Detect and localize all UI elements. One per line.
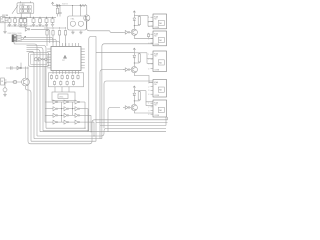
svg-text:RLY: RLY bbox=[154, 56, 158, 58]
capacitor C6 bbox=[38, 17, 41, 26]
resistor R UC bbox=[138, 91, 140, 101]
capacitor C3 bbox=[19, 17, 22, 26]
wire nest bus1 bbox=[27, 46, 47, 129]
wire feed U_B bbox=[100, 70, 125, 139]
wire gate out3 bbox=[90, 115, 91, 132]
op-amp U4D gate row bbox=[45, 120, 94, 124]
wire bus row E bbox=[40, 131, 166, 133]
svg-text:NO: NO bbox=[159, 40, 162, 42]
wire mid signal bbox=[6, 67, 29, 68]
buffer UA bbox=[123, 31, 131, 35]
power VCC UA bbox=[133, 11, 135, 14]
transistor Q UC bbox=[131, 104, 137, 110]
wire UC out1 bbox=[139, 91, 153, 106]
wire bus row C bbox=[34, 138, 102, 140]
wire bus top1 bbox=[96, 122, 168, 124]
power VCC arrow bbox=[51, 2, 53, 5]
svg-text:3: 3 bbox=[148, 26, 149, 28]
wire bus row D bbox=[37, 128, 166, 136]
wire nest bus3 bbox=[27, 50, 41, 132]
svg-text:2: 2 bbox=[148, 86, 149, 88]
label PWR text bbox=[2, 15, 9, 17]
wire bus top2 bbox=[100, 125, 166, 127]
wire gate feeds left bbox=[44, 66, 46, 122]
op-amp U4B gate row bbox=[45, 107, 88, 111]
diode D UC bbox=[133, 91, 136, 101]
ground resonator A bbox=[71, 31, 75, 34]
svg-text:K1 RLY: K1 RLY bbox=[20, 4, 25, 6]
wire bus row A bbox=[28, 67, 168, 144]
connector P5 bbox=[148, 100, 166, 117]
wire gate link2 bbox=[72, 102, 73, 115]
op-amp U5 dual gate bbox=[29, 53, 49, 67]
svg-text:1: 1 bbox=[148, 103, 149, 105]
wire UB out1 bbox=[139, 53, 153, 64]
wire bus row G bbox=[46, 127, 85, 129]
resistor R5 bbox=[58, 30, 60, 44]
wire relay to rail bbox=[21, 13, 30, 17]
wire gate out4 bbox=[93, 122, 94, 136]
op-amp U1 MCU bbox=[47, 43, 85, 74]
wire vert v2 bbox=[95, 36, 97, 141]
resistor R UB bbox=[138, 53, 140, 63]
wire UC emitter bbox=[134, 111, 153, 113]
svg-text:CONN: CONN bbox=[154, 27, 160, 29]
ground lower left bbox=[3, 92, 7, 97]
wire nest bus2 bbox=[27, 48, 44, 131]
connector J3 bbox=[1, 78, 7, 85]
svg-text:4: 4 bbox=[148, 94, 149, 96]
wire RN1 to U3 bbox=[55, 87, 69, 92]
svg-text:RLY: RLY bbox=[154, 19, 158, 21]
wire UA mid bbox=[134, 25, 140, 29]
resistor R7 bbox=[56, 6, 58, 17]
connector P4 bbox=[148, 80, 166, 98]
svg-text:2: 2 bbox=[148, 107, 149, 109]
svg-text:1: 1 bbox=[148, 34, 149, 36]
svg-text:XTAL: XTAL bbox=[71, 17, 75, 20]
wire Q2 emitter bbox=[20, 63, 22, 68]
resistor R UA2 bbox=[147, 33, 149, 38]
node box group bbox=[19, 18, 27, 27]
wire UA out1 bbox=[139, 16, 153, 27]
connector J1 bbox=[1, 17, 8, 23]
svg-text:RLY: RLY bbox=[154, 84, 158, 86]
wire gate link1 bbox=[61, 102, 62, 122]
buffer UB bbox=[123, 68, 131, 72]
wire rail2 bbox=[7, 25, 48, 26]
svg-text:3: 3 bbox=[148, 43, 149, 45]
label VDD text bbox=[62, 3, 69, 5]
svg-text:OSC: OSC bbox=[59, 97, 64, 99]
arrow relay pointer bbox=[12, 5, 18, 14]
wire icsp pgm3 bbox=[21, 42, 59, 44]
wire UB emitter bbox=[134, 73, 153, 83]
transistor Q4 bbox=[3, 82, 7, 92]
wire icsp pgm2 bbox=[21, 39, 56, 43]
wire feed box2 bbox=[102, 44, 153, 139]
svg-text:3: 3 bbox=[148, 110, 149, 112]
wire gate out2 bbox=[87, 109, 88, 132]
capacitor C8 bbox=[51, 17, 54, 26]
svg-text:1: 1 bbox=[148, 83, 149, 85]
wire VCC rail bbox=[2, 17, 56, 18]
svg-text:VDD 5V: VDD 5V bbox=[62, 3, 69, 5]
wire bus row B bbox=[31, 140, 96, 142]
svg-text:4: 4 bbox=[148, 114, 149, 116]
buffer U6A bbox=[17, 66, 22, 70]
capacitor C1 bbox=[8, 17, 11, 26]
svg-text:1: 1 bbox=[148, 54, 149, 56]
capacitor C5 bbox=[32, 17, 35, 26]
connector J2 ICSP bbox=[12, 35, 21, 42]
wire bus hooks bbox=[166, 117, 168, 126]
power VCC UC bbox=[133, 86, 135, 89]
wire top rail bbox=[53, 5, 87, 6]
buffer UC bbox=[123, 106, 131, 110]
ground resonator B bbox=[79, 31, 83, 34]
capacitor C2 bbox=[13, 17, 16, 26]
wire Q1 out bbox=[87, 21, 123, 32]
svg-text:RLY: RLY bbox=[154, 105, 158, 107]
diode D1 bbox=[57, 4, 60, 7]
svg-text:2: 2 bbox=[148, 38, 149, 40]
transistor Q1 bbox=[84, 6, 90, 22]
wire relay top loop bbox=[21, 1, 31, 3]
svg-text:PIC: PIC bbox=[62, 60, 66, 62]
wire Q3 stub bbox=[26, 86, 32, 141]
svg-text:NO: NO bbox=[159, 110, 162, 112]
svg-text:3: 3 bbox=[148, 90, 149, 92]
resistor R4 bbox=[52, 30, 54, 44]
wire UB mid bbox=[134, 62, 140, 66]
svg-text:NO: NO bbox=[159, 62, 162, 64]
wire UB top bbox=[134, 51, 139, 53]
wire gate out1 bbox=[84, 102, 85, 129]
capacitor C12 bbox=[11, 66, 13, 70]
op-amp U4C gate row bbox=[45, 113, 91, 117]
svg-text:NO: NO bbox=[159, 23, 162, 25]
wire feed U_C bbox=[108, 108, 120, 132]
wire lower left bbox=[5, 81, 22, 83]
diode D UA bbox=[133, 16, 136, 26]
transistor Q UB bbox=[131, 67, 137, 73]
svg-text:1: 1 bbox=[148, 17, 149, 19]
svg-text:CONN: CONN bbox=[154, 95, 160, 97]
label ICSP text bbox=[8, 33, 23, 35]
wire UA top bbox=[134, 14, 139, 16]
resistor R1 bbox=[80, 4, 87, 6]
wire buffer out bbox=[31, 29, 50, 43]
svg-text:CONN: CONN bbox=[154, 44, 160, 46]
wire icsp pgm1 bbox=[21, 37, 53, 43]
resistor R6 bbox=[64, 30, 66, 47]
svg-text:4: 4 bbox=[148, 69, 149, 71]
svg-text:CONN: CONN bbox=[154, 70, 160, 72]
connector P1 bbox=[148, 14, 166, 29]
buffer U6B bbox=[12, 80, 17, 83]
svg-text:J3: J3 bbox=[1, 81, 3, 83]
svg-text:2: 2 bbox=[148, 21, 149, 23]
svg-text:NO: NO bbox=[159, 90, 162, 92]
resistor R UA bbox=[138, 16, 140, 26]
svg-text:RLY: RLY bbox=[154, 36, 158, 38]
connector P2 bbox=[148, 31, 166, 46]
wire Q3 collector bbox=[25, 67, 27, 79]
transistor Q UA bbox=[131, 29, 137, 35]
svg-text:CONN: CONN bbox=[154, 115, 160, 117]
svg-text:12V IN: 12V IN bbox=[2, 15, 9, 17]
ground J1 bbox=[3, 23, 7, 34]
wire nest bus4 bbox=[14, 42, 37, 136]
capacitor C10 bbox=[58, 6, 61, 17]
wire mid h52 bbox=[96, 52, 134, 54]
buffer U2A bbox=[25, 28, 30, 32]
power VCC UB bbox=[133, 48, 135, 51]
diode D UB bbox=[133, 53, 136, 63]
wire resonator feeds bbox=[73, 6, 81, 17]
connector P3 bbox=[148, 51, 166, 72]
wire bus row F bbox=[43, 130, 89, 132]
relay K1 bbox=[17, 3, 34, 14]
wire vert v1 bbox=[89, 36, 96, 130]
capacitor C7 bbox=[45, 17, 48, 26]
svg-text:2: 2 bbox=[148, 59, 149, 61]
resonator Y1 bbox=[68, 16, 87, 30]
op-amp U4A gate row bbox=[45, 100, 85, 104]
wire UC top bbox=[134, 89, 139, 91]
transistor Q3 bbox=[22, 78, 30, 86]
svg-text:3: 3 bbox=[148, 64, 149, 66]
wire nest bus5 bbox=[27, 51, 35, 138]
wire UA emitter bbox=[134, 35, 153, 38]
arrow ICSP pointer bbox=[22, 36, 25, 39]
wire rail3 bbox=[44, 27, 66, 28]
svg-text:J1: J1 bbox=[1, 19, 3, 21]
resistor R3 bbox=[46, 30, 48, 47]
resistor network RN1 bbox=[49, 73, 84, 87]
wire UC mid bbox=[134, 100, 140, 104]
op-amp U3 bbox=[52, 92, 75, 101]
capacitor C4 bbox=[23, 17, 26, 26]
wire feed box4 bbox=[104, 81, 153, 128]
